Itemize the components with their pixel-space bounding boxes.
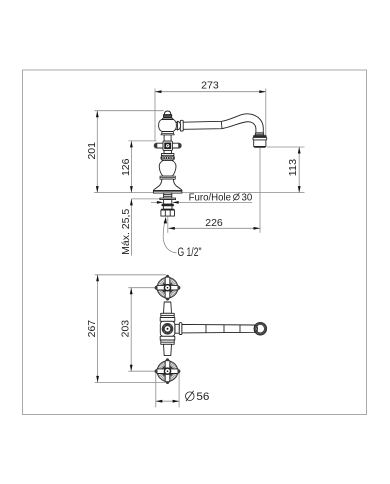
handle left tip	[154, 143, 157, 149]
tube ticks	[205, 325, 207, 333]
arrow 273 right	[259, 90, 266, 93]
top connector tube	[164, 302, 172, 313]
body top collar	[160, 318, 175, 322]
dimension line max 25.5	[130, 199, 132, 256]
extension line top of 203	[128, 287, 156, 289]
top handle hub	[164, 285, 170, 291]
extension line bottom of 113	[267, 146, 305, 148]
arrow 113 top	[298, 147, 301, 154]
spout joint tick	[220, 121, 223, 128]
svg-text:267: 267	[86, 320, 98, 338]
extension line top of 201	[95, 110, 164, 112]
hex facets	[164, 210, 166, 216]
bottom handle hub	[164, 368, 170, 374]
svg-text:113: 113	[287, 159, 299, 177]
right neck	[175, 324, 179, 333]
handle left spoke	[157, 143, 164, 148]
svg-text:56: 56	[196, 391, 209, 403]
outlet ring	[254, 322, 267, 335]
arrow 267 top	[96, 275, 99, 282]
vase bulb	[159, 160, 176, 176]
extension line top of 126	[129, 140, 157, 142]
top handle knurl wedges	[163, 284, 171, 292]
spout flange at body	[180, 120, 183, 131]
spout tube plan	[182, 324, 255, 333]
deck bottom line	[131, 198, 163, 200]
svg-text:Máx. 25,5: Máx. 25,5	[120, 209, 132, 255]
extension line top of 267	[95, 274, 166, 276]
dimension line 203	[130, 288, 132, 372]
top handle spokes	[155, 275, 181, 301]
spout tube	[183, 114, 263, 133]
arrow 126 bottom / max top	[130, 186, 133, 193]
spout dark band	[254, 136, 267, 138]
extension line bottom of 203	[128, 370, 156, 372]
spout neck taper rings	[255, 133, 264, 136]
spout collar	[177, 121, 180, 130]
handle hub center	[166, 144, 169, 147]
bottom handle knurl wedges	[163, 367, 171, 375]
border frame	[23, 70, 367, 415]
arrow 201 top	[96, 111, 99, 118]
dimension line 226	[168, 227, 260, 229]
stem above handle	[164, 135, 171, 141]
ring below vase	[160, 176, 175, 179]
extension line right of 273	[265, 89, 267, 138]
svg-text:273: 273	[201, 80, 219, 92]
dimension line 126	[130, 141, 132, 193]
bottom handle rings	[157, 361, 178, 382]
arrow 203 top	[130, 288, 133, 295]
knurl dots	[162, 157, 174, 160]
arrow furo left	[157, 201, 164, 204]
extension line dia56 right	[178, 372, 180, 408]
dimension line 201	[96, 111, 98, 193]
finial band	[164, 115, 172, 118]
svg-text:201: 201	[86, 142, 98, 160]
handle hub inner	[165, 143, 171, 149]
handle right spoke	[172, 143, 179, 148]
arrow furo right	[172, 201, 179, 204]
arrows of side view dims	[96, 90, 301, 229]
spout neck	[174, 122, 178, 129]
svg-text:226: 226	[205, 217, 223, 229]
shank thread lines	[164, 194, 172, 196]
diameter symbol furo	[233, 193, 239, 201]
arrow 201 bottom	[96, 186, 99, 193]
locknut collar	[163, 206, 172, 209]
dimension line 113	[298, 147, 300, 193]
bell	[153, 179, 182, 191]
extension line dia56 left	[155, 372, 157, 408]
leader G 1/2	[163, 220, 176, 253]
finial flare	[162, 118, 174, 120]
bottom handle spokes	[155, 358, 181, 384]
right collar	[179, 323, 182, 335]
shank lower	[164, 200, 172, 205]
arrow 113 bottom	[298, 186, 301, 193]
arrow 267 bottom	[96, 376, 99, 383]
svg-text:203: 203	[120, 320, 132, 338]
hex nut	[161, 210, 175, 216]
hub donut center body	[162, 323, 174, 335]
finial dome	[164, 111, 170, 115]
leader line furo/hole right underline	[178, 201, 252, 203]
dimension line dia56	[156, 400, 179, 402]
leader line furo/hole left stub	[151, 201, 157, 203]
body	[160, 321, 175, 336]
base plate	[153, 191, 182, 194]
svg-text:G 1/2": G 1/2"	[178, 247, 202, 259]
extension line left of 273	[154, 89, 156, 141]
collar below bulb	[161, 132, 174, 135]
arrow 226 right	[254, 227, 261, 230]
arrow max 25.5 bottom	[130, 199, 133, 206]
aerator flange	[253, 137, 267, 140]
body bottom collar	[160, 336, 175, 340]
dimension texts side view	[86, 80, 299, 259]
dimension line 273	[155, 91, 266, 93]
handle right tip	[179, 143, 182, 149]
arrow 226 left	[168, 227, 175, 230]
handle hub	[163, 141, 172, 150]
nut top line	[162, 208, 174, 211]
arrow dia56 right	[173, 400, 180, 403]
top collar	[161, 313, 174, 317]
knurl ring	[161, 155, 175, 160]
stem below handle	[164, 150, 171, 153]
extension line right of 226	[259, 148, 261, 233]
aerator chamfer	[254, 145, 266, 148]
aerator body	[254, 140, 266, 147]
extension line bottom of 267	[95, 381, 166, 383]
collar line	[162, 132, 174, 134]
svg-text:Furo/Hole: Furo/Hole	[189, 191, 232, 203]
upper body bulb	[159, 120, 177, 132]
svg-text:126: 126	[120, 158, 132, 176]
locknut flange	[162, 204, 173, 206]
dimension line 267	[97, 275, 99, 383]
top handle rings	[157, 277, 178, 298]
svg-text:30: 30	[242, 191, 253, 203]
tube end cap	[255, 325, 258, 332]
flange pair	[161, 154, 174, 156]
arrow 203 bottom	[130, 365, 133, 372]
deck line	[94, 192, 305, 194]
arrow 126 top	[130, 141, 133, 148]
arrow dia56 left	[156, 400, 163, 403]
arrow 273 left	[155, 90, 162, 93]
bottom collar2	[161, 340, 174, 344]
washer	[160, 198, 176, 200]
finial band stripes	[164, 115, 172, 117]
bottom connector tube	[164, 344, 172, 355]
shank upper	[164, 193, 172, 198]
extension line left of 226	[167, 217, 169, 233]
diameter symbol 56	[186, 391, 195, 402]
